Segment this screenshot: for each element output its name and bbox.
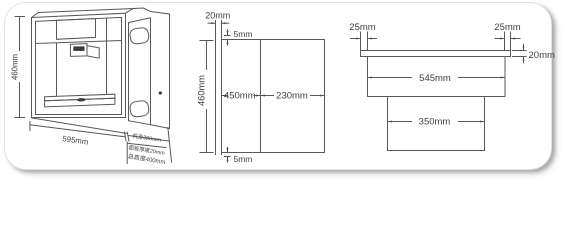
svg-text:5mm: 5mm	[234, 29, 253, 39]
drip tray front face	[45, 98, 115, 107]
side panel handle bottom	[129, 100, 149, 118]
card background	[4, 2, 552, 170]
dimension 20mm arrows	[208, 22, 216, 24]
svg-text:25mm: 25mm	[494, 22, 520, 33]
appliance depth rectangle	[388, 97, 485, 151]
side panel handle top	[129, 27, 149, 45]
dispensing recess right wall	[106, 18, 108, 94]
machine top face	[32, 9, 134, 18]
svg-text:20mm: 20mm	[205, 11, 230, 21]
dimension 350mm	[388, 121, 484, 123]
side panel	[129, 18, 151, 125]
niche width rectangle	[368, 57, 506, 97]
dimension 460mm (middle)	[200, 41, 214, 153]
spout brand label	[73, 46, 84, 51]
svg-text:230mm: 230mm	[276, 91, 308, 102]
dimension 460mm (left figure)	[15, 17, 26, 118]
niche internal divider	[260, 40, 262, 153]
25mm right extension lines	[504, 32, 506, 51]
machine bottom depth edge	[32, 118, 128, 134]
back column screw dot	[159, 91, 162, 94]
machine front face outer frame	[32, 13, 126, 117]
depth dimension right tick	[168, 127, 172, 163]
dimension 230mm	[261, 95, 324, 97]
depth dimension line (body 380mm)	[128, 136, 169, 142]
dimension 545mm	[368, 77, 505, 79]
svg-text:545mm: 545mm	[419, 73, 451, 84]
dimension 25mm right arrows	[495, 38, 505, 40]
svg-text:450mm: 450mm	[224, 91, 256, 102]
25mm left extension lines	[360, 32, 362, 51]
control band line below display	[35, 41, 122, 44]
svg-text:350mm: 350mm	[419, 116, 451, 127]
svg-text:460mm: 460mm	[196, 75, 206, 106]
counter top bar	[361, 51, 511, 57]
machine front face inner frame	[36, 17, 122, 114]
depth dimension line (panel 20mm)	[127, 143, 166, 147]
dimension 20mm arrows	[523, 44, 525, 51]
dimension 450mm	[222, 95, 260, 97]
depth dimension left tick (lower block)	[126, 142, 128, 164]
svg-text:5mm: 5mm	[234, 154, 253, 164]
drip tray drain oval	[77, 98, 86, 102]
svg-text:20mm: 20mm	[529, 50, 555, 61]
svg-text:460mm: 460mm	[10, 54, 19, 80]
dimension 25mm left arrows	[350, 38, 360, 40]
display recess	[57, 19, 96, 40]
spout side face	[87, 46, 99, 59]
dimension 5mm top	[224, 29, 231, 45]
svg-text:25mm: 25mm	[349, 22, 375, 33]
dispensing recess left wall	[56, 43, 58, 97]
dimension 5mm bottom	[224, 147, 231, 163]
svg-text:机身380mm: 机身380mm	[132, 131, 162, 143]
back column	[151, 12, 170, 129]
front panel strip 20mm	[215, 20, 217, 155]
dimension 595mm	[30, 121, 129, 142]
drip tray top surface	[45, 94, 115, 101]
niche rectangle	[222, 40, 325, 153]
svg-text:595mm: 595mm	[62, 134, 89, 147]
20mm thickness ticks	[512, 50, 527, 52]
coffee spout box	[70, 44, 87, 57]
